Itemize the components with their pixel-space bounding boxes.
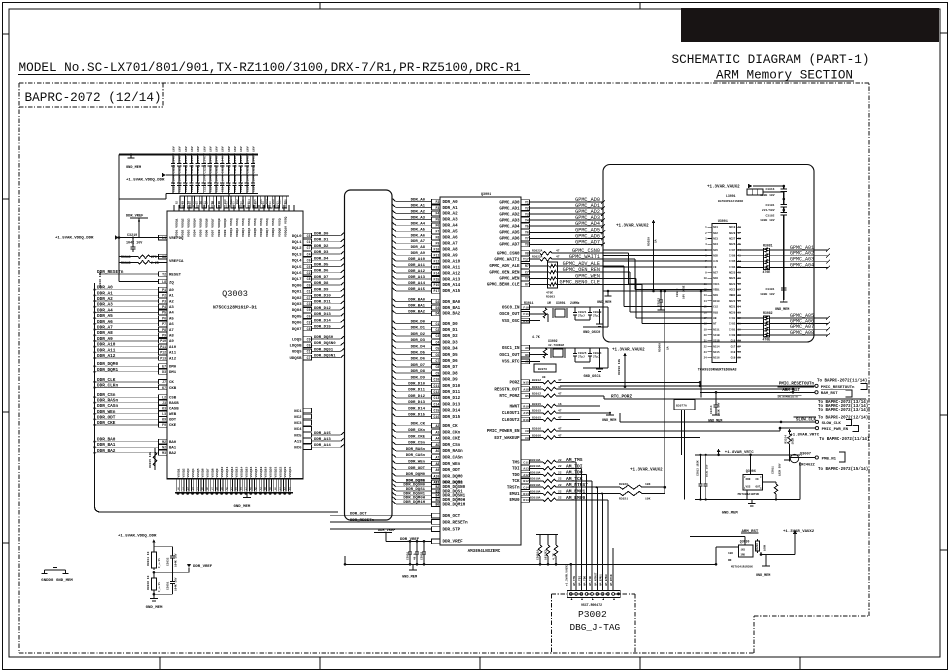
svg-text:C3227 104K: C3227 104K — [216, 156, 219, 174]
svg-text:34: 34 — [738, 306, 742, 309]
svg-text:GND_MEM: GND_MEM — [775, 308, 789, 312]
svg-text:DDR_D9: DDR_D9 — [411, 376, 426, 380]
svg-text:VDD7 VDDQ7: VDD7 VDDQ7 — [211, 218, 215, 237]
svg-text:GND_MEM: GND_MEM — [126, 166, 141, 170]
svg-text:AM_RTCK: AM_RTCK — [610, 574, 613, 586]
regulator Q3006 circuit — [695, 449, 800, 516]
svg-text:DQL0: DQL0 — [292, 235, 302, 239]
bus to CPU wires: bank address — [392, 298, 461, 316]
svg-text:B3019A: B3019A — [530, 490, 541, 493]
svg-text:DDR_VREF: DDR_VREF — [193, 565, 213, 569]
resistor array R3083 — [546, 262, 558, 299]
svg-text:B12: B12 — [236, 199, 239, 204]
svg-text:B3012: B3012 — [532, 386, 541, 389]
svg-text:B18: B18 — [272, 199, 275, 204]
svg-text:22: 22 — [558, 490, 562, 493]
svg-text:DDR_D8: DDR_D8 — [314, 282, 329, 286]
CPU IC Q3001 body — [440, 193, 521, 554]
svg-text:32.768KHZ: 32.768KHZ — [548, 344, 564, 347]
svg-text:GPMC_ADV_ALE: GPMC_ADV_ALE — [563, 261, 600, 267]
svg-text:F13: F13 — [434, 265, 440, 269]
svg-text:NC27: NC27 — [729, 238, 736, 241]
svg-text:C19: C19 — [731, 357, 736, 360]
svg-text:DDR_D13: DDR_D13 — [408, 401, 425, 405]
svg-text:C14: C14 — [523, 487, 529, 490]
svg-text:DDR_D8: DDR_D8 — [443, 372, 459, 376]
svg-text:DDR_DQSN0: DDR_DQSN0 — [314, 342, 336, 346]
svg-text:22: 22 — [558, 471, 562, 474]
svg-text:27pJ: 27pJ — [578, 315, 585, 318]
svg-text:X3002: X3002 — [548, 339, 558, 343]
svg-text:DDR_D4: DDR_D4 — [443, 348, 459, 352]
svg-text:A3: A3 — [435, 430, 439, 434]
svg-text:DDR_CLKn: DDR_CLKn — [97, 384, 118, 389]
svg-text:C3051A: C3051A — [537, 550, 540, 560]
svg-text:SCHEMATIC DIAGRAM (PART-1): SCHEMATIC DIAGRAM (PART-1) — [672, 52, 870, 67]
wires from bus edge to IO expander upper pins — [603, 250, 712, 267]
svg-text:GND_MEM: GND_MEM — [234, 505, 251, 509]
svg-text:F16: F16 — [434, 283, 440, 287]
svg-text:F8: F8 — [435, 236, 439, 240]
svg-text:GPMC_AD0: GPMC_AD0 — [499, 201, 520, 205]
svg-text:B3019A: B3019A — [530, 465, 541, 468]
svg-text:DDR_D10: DDR_D10 — [314, 295, 331, 299]
svg-text:DDR_OCT: DDR_OCT — [350, 513, 367, 517]
svg-text:A4: A4 — [435, 437, 439, 441]
svg-text:DDR_A15: DDR_A15 — [443, 290, 461, 294]
svg-text:103E 16V: 103E 16V — [706, 464, 709, 477]
svg-text:E7: E7 — [162, 365, 166, 369]
black title bar top right — [681, 8, 939, 42]
capacitor C3214 — [708, 391, 722, 424]
svg-text:0E: 0E — [542, 376, 546, 379]
svg-text:To BAPRC-2072(11/14): To BAPRC-2072(11/14) — [817, 378, 867, 383]
svg-text:A12: A12 — [523, 474, 529, 477]
svg-text:D2: D2 — [435, 300, 439, 304]
svg-text:R3009: R3009 — [659, 343, 662, 352]
svg-text:VSSQ9: VSSQ9 — [216, 468, 219, 477]
svg-text:DDR_A10: DDR_A10 — [443, 260, 461, 264]
svg-text:Y3: Y3 — [525, 212, 529, 216]
svg-text:C2: C2 — [307, 271, 311, 275]
svg-text:+1.3VAR_VAUX2: +1.3VAR_VAUX2 — [783, 530, 815, 534]
svg-text:DDR_RASn: DDR_RASn — [97, 399, 118, 404]
svg-text:DDR_DQS1: DDR_DQS1 — [314, 348, 334, 352]
svg-text:DDR_A7: DDR_A7 — [411, 240, 426, 244]
svg-text:VSSQ22: VSSQ22 — [279, 466, 282, 477]
svg-text:PMB_N1: PMB_N1 — [822, 457, 837, 461]
svg-text:VCC2: VCC2 — [729, 289, 736, 292]
svg-text:F11: F11 — [434, 253, 440, 257]
svg-text:+1.8VAR_VRTC: +1.8VAR_VRTC — [790, 433, 819, 437]
svg-text:DDR_A11: DDR_A11 — [443, 266, 461, 270]
svg-text:RTC_PORZ: RTC_PORZ — [611, 394, 632, 399]
crystal X3002 32.768KHz circuit — [521, 335, 608, 379]
svg-text:C7: C7 — [307, 356, 311, 360]
svg-text:VSSQ3: VSSQ3 — [187, 468, 190, 477]
svg-text:VDDQ9 VSSQ: VDDQ9 VSSQ — [277, 218, 281, 237]
svg-text:BA0: BA0 — [169, 441, 177, 445]
svg-text:GPMC_AD1: GPMC_AD1 — [499, 207, 520, 211]
svg-text:16V: 16V — [227, 146, 231, 152]
svg-text:DDR_A5: DDR_A5 — [411, 228, 426, 232]
svg-text:R3011: R3011 — [524, 301, 534, 305]
svg-text:C3102: C3102 — [765, 215, 774, 218]
svg-text:C7: C7 — [435, 359, 439, 363]
svg-text:DDR_D3: DDR_D3 — [443, 341, 459, 345]
svg-text:I/O3: I/O3 — [729, 316, 736, 320]
connector P3002 dashed enclosure — [552, 594, 636, 653]
Q3001 clock out pins — [502, 403, 600, 423]
svg-text:I/O5: I/O5 — [729, 259, 736, 263]
svg-text:B3015: B3015 — [532, 403, 541, 406]
svg-text:To BAPRC-2072(11/14): To BAPRC-2072(11/14) — [819, 437, 869, 442]
svg-text:R1B: R1B — [713, 311, 718, 314]
svg-text:19: 19 — [704, 328, 708, 331]
svg-text:F12: F12 — [434, 259, 440, 263]
svg-text:DDR_D6: DDR_D6 — [443, 360, 459, 364]
svg-text:DDR_A8: DDR_A8 — [97, 331, 113, 336]
svg-text:DDR_BA0: DDR_BA0 — [443, 301, 461, 305]
svg-text:BA2: BA2 — [169, 452, 177, 456]
wire to Q3030 from rail — [715, 547, 739, 566]
vertical rail R3009 to pull-up node — [659, 290, 670, 488]
svg-text:A12: A12 — [169, 357, 177, 361]
svg-text:35: 35 — [738, 300, 742, 303]
svg-text:DDR_CASn: DDR_CASn — [443, 457, 464, 461]
bypass cap C3023 — [658, 285, 686, 310]
svg-text:P13: P13 — [160, 356, 166, 360]
svg-text:+1.5VAR_VDDQ_DDR: +1.5VAR_VDDQ_DDR — [55, 237, 94, 241]
svg-text:B3: B3 — [181, 200, 184, 204]
svg-text:DDR_BA2: DDR_BA2 — [443, 313, 461, 317]
svg-text:C3231 104K: C3231 104K — [240, 156, 243, 174]
svg-text:47: 47 — [558, 393, 562, 396]
svg-text:DDR_CKn: DDR_CKn — [408, 429, 425, 433]
svg-text:C1: C1 — [435, 322, 439, 326]
svg-text:Q3001: Q3001 — [481, 193, 491, 197]
svg-text:Y6: Y6 — [525, 231, 529, 235]
svg-text:DDR_VREF: DDR_VREF — [443, 541, 464, 545]
svg-text:DDR_CKE: DDR_CKE — [443, 438, 461, 442]
svg-text:NC24: NC24 — [729, 277, 736, 280]
svg-text:DDR_DQM1H: DDR_DQM1H — [403, 501, 425, 505]
svg-text:R3208: R3208 — [756, 543, 759, 551]
svg-text:M3: M3 — [162, 451, 166, 455]
svg-text:AM_NTRST: AM_NTRST — [594, 572, 597, 586]
svg-text:MST994A1BTUK: MST994A1BTUK — [738, 493, 760, 496]
svg-text:DQU7: DQU7 — [292, 328, 302, 332]
svg-text:ARM_RST: ARM_RST — [782, 389, 800, 393]
svg-text:I/O7: I/O7 — [729, 248, 736, 252]
svg-text:16V: 16V — [172, 146, 176, 152]
svg-text:DDR_A11: DDR_A11 — [408, 264, 425, 268]
svg-text:A6: A6 — [169, 323, 174, 327]
net SLOW_CLK terminal — [620, 413, 868, 426]
svg-text:DDR_A13: DDR_A13 — [443, 278, 461, 282]
bus to CPU wires: strobe group — [392, 479, 466, 507]
svg-text:B19: B19 — [278, 199, 281, 204]
wires DDR_OCT DDR_RESETn DDR_STP — [330, 513, 468, 533]
svg-text:UDQS: UDQS — [292, 351, 302, 355]
svg-text:A10: A10 — [434, 474, 440, 478]
svg-text:RESSTN_OUT: RESSTN_OUT — [494, 388, 520, 392]
svg-text:VSSQ15: VSSQ15 — [245, 466, 248, 477]
svg-text:K3: K3 — [162, 407, 166, 411]
svg-text:B3019A: B3019A — [530, 478, 541, 481]
svg-text:DDR_D15: DDR_D15 — [314, 326, 331, 330]
svg-text:Q3007: Q3007 — [800, 453, 812, 457]
svg-text:CSB: CSB — [169, 396, 177, 400]
svg-text:B12: B12 — [523, 480, 529, 483]
svg-text:VDDQ8 VSSQ: VDDQ8 VSSQ — [271, 218, 275, 237]
svg-text:AM_TCK: AM_TCK — [589, 576, 592, 586]
svg-text:B15: B15 — [254, 199, 257, 204]
title ARM Memory SECTION — [714, 68, 854, 83]
svg-text:C3233 104K: C3233 104K — [252, 156, 255, 174]
series resistor packs RA row above Q3003 — [180, 194, 289, 209]
svg-text:VSSQ6: VSSQ6 — [202, 468, 205, 477]
svg-text:A4: A4 — [169, 312, 174, 316]
svg-text:DDR_D7: DDR_D7 — [443, 366, 459, 370]
svg-text:1M: 1M — [547, 301, 551, 305]
svg-text:DDR_ODT: DDR_ODT — [408, 467, 425, 471]
title MODEL No line — [18, 60, 530, 75]
svg-text:DDR_A1: DDR_A1 — [443, 207, 459, 211]
svg-text:DDR_CKn: DDR_CKn — [443, 431, 461, 435]
svg-text:D13: D13 — [523, 499, 529, 502]
component outline near RTC_PORZ — [674, 400, 695, 410]
svg-text:27pJ: 27pJ — [593, 315, 600, 318]
svg-text:CKB: CKB — [169, 387, 177, 391]
svg-text:B5: B5 — [194, 200, 197, 204]
svg-text:Y5: Y5 — [525, 225, 529, 229]
svg-text:NC15: NC15 — [713, 351, 720, 354]
svg-text:C18: C18 — [731, 351, 736, 354]
svg-text:A8: A8 — [435, 462, 439, 466]
bus to CPU wires: data group — [392, 320, 461, 420]
net PMIC_PWR_EN terminal — [556, 426, 869, 443]
svg-text:R3022A: R3022A — [532, 255, 543, 258]
svg-text:AM_TDI: AM_TDI — [578, 576, 581, 586]
svg-text:C14: C14 — [434, 402, 440, 406]
svg-text:+1.3VAR_VAUX2: +1.3VAR_VAUX2 — [616, 225, 649, 229]
svg-text:GPMC_CSN0: GPMC_CSN0 — [497, 253, 520, 257]
svg-text:DDR_A13: DDR_A13 — [314, 438, 331, 442]
svg-text:VSSQ11: VSSQ11 — [226, 466, 229, 477]
svg-text:VSSQ19: VSSQ19 — [265, 466, 268, 477]
svg-text:NC4: NC4 — [294, 428, 302, 432]
svg-text:VDD8 VDDQ8: VDD8 VDDQ8 — [217, 218, 221, 237]
svg-text:P10: P10 — [160, 339, 166, 343]
svg-text:100E 10V: 100E 10V — [760, 194, 775, 197]
svg-text:4.7K: 4.7K — [532, 335, 540, 339]
svg-text:47: 47 — [558, 416, 562, 419]
svg-text:2.2R: 2.2R — [151, 261, 159, 265]
power +1.3VAR_VAUX2 to RTC — [612, 349, 645, 388]
svg-text:T7: T7 — [525, 277, 529, 281]
svg-text:DDR_DQM0: DDR_DQM0 — [97, 362, 118, 367]
bus to CPU wires: control group — [392, 423, 463, 486]
svg-text:DQU0: DQU0 — [292, 284, 302, 288]
svg-text:K8: K8 — [162, 255, 166, 259]
svg-text:VDDQ2 VSSQ: VDDQ2 VSSQ — [235, 218, 239, 237]
svg-text:XRD: XRD — [746, 478, 751, 481]
svg-text:C10: C10 — [434, 378, 440, 382]
svg-text:DDR_A14: DDR_A14 — [443, 284, 461, 288]
svg-text:B10: B10 — [224, 199, 227, 204]
svg-text:DDR_WEn: DDR_WEn — [97, 410, 116, 415]
svg-text:GPMC_AD6: GPMC_AD6 — [499, 238, 520, 242]
svg-text:18: 18 — [704, 323, 708, 326]
svg-text:16V: 16V — [221, 146, 225, 152]
svg-text:DDR_A2: DDR_A2 — [443, 213, 459, 217]
board dashed outline border — [19, 83, 869, 653]
svg-text:F4: F4 — [435, 212, 439, 216]
svg-text:J3: J3 — [162, 401, 166, 405]
net RAM_RST wire — [556, 387, 868, 413]
Q3001 oscillator 1 / RTC pins — [499, 345, 540, 364]
svg-text:DDR_A12: DDR_A12 — [408, 270, 425, 274]
svg-text:DDR_D10: DDR_D10 — [443, 385, 461, 389]
DDR_VREF filter network — [344, 529, 716, 580]
ZQ resistor R3045 — [149, 448, 157, 470]
svg-text:F17: F17 — [434, 289, 440, 293]
svg-text:DDR_D2: DDR_D2 — [314, 245, 329, 249]
svg-text:VDDQ3 VSSQ: VDDQ3 VSSQ — [241, 218, 245, 237]
svg-text:DDR_A1: DDR_A1 — [411, 204, 426, 208]
svg-text:TRSTn: TRSTn — [507, 487, 520, 491]
svg-text:DDR_D1: DDR_D1 — [411, 327, 426, 331]
svg-text:DDR_A10: DDR_A10 — [408, 258, 425, 262]
svg-text:Q3003: Q3003 — [222, 289, 248, 299]
svg-text:DDR_A14: DDR_A14 — [408, 282, 425, 286]
svg-text:16V: 16V — [208, 146, 212, 152]
svg-text:B3076: B3076 — [538, 368, 547, 371]
svg-text:16V: 16V — [178, 146, 182, 152]
svg-text:RN: RN — [728, 559, 732, 562]
bus to CPU wires: address group — [392, 198, 461, 294]
svg-text:P5: P5 — [162, 311, 166, 315]
svg-text:A5: A5 — [169, 317, 174, 321]
svg-text:DDR_A10: DDR_A10 — [97, 343, 116, 348]
svg-text:VREFDQ: VREFDQ — [169, 237, 184, 241]
svg-text:AM_EMU1: AM_EMU1 — [600, 574, 603, 586]
svg-text:A3: A3 — [169, 306, 174, 310]
crystal X3001 24MHz circuit — [521, 301, 608, 335]
svg-text:VSS: VSS — [746, 486, 751, 489]
svg-text:47: 47 — [558, 379, 562, 382]
capacitor C3301 on VCC2 rail — [747, 282, 789, 312]
svg-text:9SCT-R00472: 9SCT-R00472 — [581, 603, 602, 607]
svg-text:C3220 104K: C3220 104K — [173, 156, 176, 174]
svg-text:C8: C8 — [525, 430, 529, 433]
svg-text:22: 22 — [558, 459, 562, 462]
svg-text:VDD5 VDDQ5: VDD5 VDDQ5 — [199, 218, 203, 237]
pull resistors R3020 R3021 to +1.3VAR_VAUX2 — [596, 469, 667, 501]
svg-text:RTC_PORZ: RTC_PORZ — [499, 395, 520, 399]
svg-text:23: 23 — [704, 351, 708, 354]
svg-text:DDR_D13: DDR_D13 — [443, 403, 461, 407]
svg-text:VDD9 VDDQ9: VDD9 VDDQ9 — [223, 218, 227, 237]
svg-text:NC8: NC8 — [713, 277, 718, 280]
svg-text:DDR_DQM0: DDR_DQM0 — [406, 473, 426, 477]
svg-text:16V: 16V — [251, 146, 255, 152]
svg-text:22: 22 — [558, 465, 562, 468]
svg-text:DDR_BA1: DDR_BA1 — [408, 305, 425, 309]
svg-text:C5: C5 — [307, 234, 311, 238]
svg-text:NCK: NCK — [713, 255, 718, 258]
memory IC Q3003 body — [167, 211, 303, 479]
Q3001 right side GPMC_AD bus pins — [499, 197, 605, 248]
svg-text:VDD2 VDDQ2: VDD2 VDDQ2 — [180, 218, 184, 237]
svg-text:VSSQ12: VSSQ12 — [231, 466, 234, 477]
svg-text:VCC1: VCC1 — [713, 283, 720, 286]
svg-text:OSC1_OUT: OSC1_OUT — [499, 354, 520, 358]
svg-text:A1: A1 — [169, 295, 174, 299]
svg-text:VSSQ7: VSSQ7 — [207, 468, 210, 477]
svg-text:C3023: C3023 — [676, 288, 679, 297]
svg-text:49.9: 49.9 — [414, 553, 417, 560]
svg-text:+1.3VAR_VAUX2: +1.3VAR_VAUX2 — [707, 186, 740, 190]
svg-text:NC1: NC1 — [294, 410, 302, 414]
svg-text:F6: F6 — [435, 224, 439, 228]
svg-text:GND_MEM: GND_MEM — [56, 579, 73, 583]
svg-text:C3301: C3301 — [765, 288, 774, 291]
svg-text:C3016: C3016 — [765, 188, 774, 191]
svg-text:16V: 16V — [215, 146, 219, 152]
svg-text:26: 26 — [738, 351, 742, 354]
svg-text:VDDQ6 VSSQ: VDDQ6 VSSQ — [259, 218, 263, 237]
svg-text:R3021: R3021 — [619, 498, 628, 501]
svg-text:DQU2: DQU2 — [292, 297, 302, 301]
svg-text:K9: K9 — [162, 418, 166, 422]
net label DDR_VREF top — [126, 215, 148, 238]
svg-text:C3: C3 — [307, 302, 311, 306]
svg-text:DDR_CSn: DDR_CSn — [97, 393, 116, 398]
svg-text:30: 30 — [738, 328, 742, 331]
svg-text:B4: B4 — [188, 200, 191, 204]
svg-text:R3045 10E: R3045 10E — [149, 452, 152, 468]
svg-text:C3032: C3032 — [167, 557, 170, 566]
Q3003 right NC pins — [294, 408, 344, 450]
svg-text:SLOW_CLK: SLOW_CLK — [796, 419, 817, 423]
svg-text:C1: C1 — [307, 240, 311, 244]
resistor R3214 pull-down — [785, 429, 795, 454]
svg-text:WEB: WEB — [169, 413, 177, 417]
svg-text:DDR_D2: DDR_D2 — [411, 333, 426, 337]
svg-text:+1.3VAR_VAUX2: +1.3VAR_VAUX2 — [566, 564, 569, 586]
svg-text:16V: 16V — [184, 146, 188, 152]
svg-text:16: 16 — [704, 311, 708, 314]
svg-text:DDR_A3: DDR_A3 — [411, 216, 426, 220]
svg-text:4.7K: 4.7K — [553, 553, 556, 560]
svg-text:DDR_A4: DDR_A4 — [411, 222, 426, 226]
svg-text:C3013 102K: C3013 102K — [697, 460, 700, 476]
svg-text:1A: 1A — [655, 239, 658, 243]
svg-text:47: 47 — [556, 255, 560, 258]
debug connector P3002 — [567, 591, 620, 633]
svg-text:DDR_WEn: DDR_WEn — [443, 463, 461, 467]
svg-text:SC1B: SC1B — [713, 334, 720, 337]
svg-text:10K: 10K — [645, 483, 651, 486]
svg-text:VSSQ13: VSSQ13 — [236, 466, 239, 477]
svg-text:C9: C9 — [525, 437, 529, 440]
svg-text:DDR_D6: DDR_D6 — [314, 270, 329, 274]
svg-text:C2: C2 — [307, 321, 311, 325]
svg-text:LDQSB: LDQSB — [289, 345, 302, 349]
svg-text:A15: A15 — [523, 412, 529, 415]
